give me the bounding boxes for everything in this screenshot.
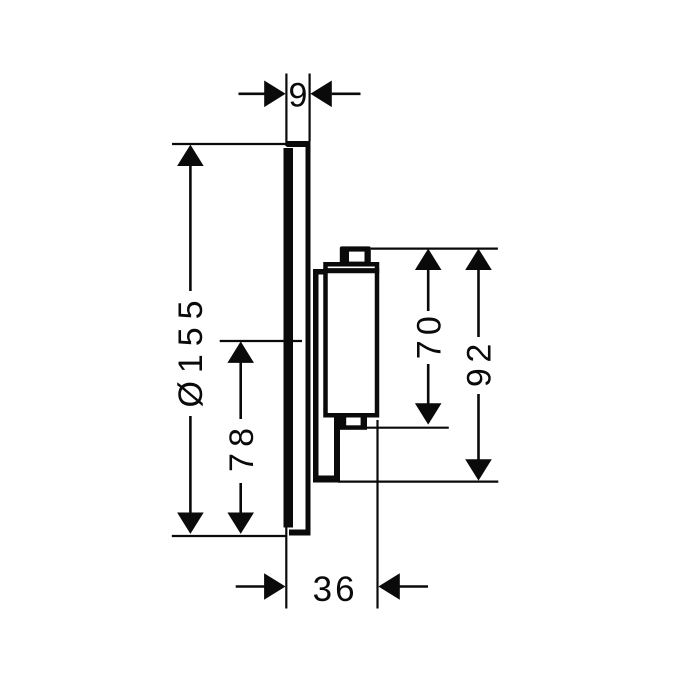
dim 92 text <box>461 344 499 388</box>
bottom stub inner white window <box>346 418 360 426</box>
dim 92 line lower segment <box>477 394 480 460</box>
dim 70 bottom arrow <box>415 403 442 424</box>
dim 36 right arrow <box>378 573 399 600</box>
sleeve pipe inner white <box>319 275 335 476</box>
dim 9 right arrow <box>310 81 331 108</box>
dim 36 left arrow <box>264 573 285 600</box>
dim 9 left extension line <box>285 74 287 147</box>
dim 92 top arrow <box>465 249 492 270</box>
dim 78 top arrow <box>227 341 254 363</box>
escutcheon plate bottom flange <box>289 530 311 536</box>
sleeve pipe outer <box>313 269 340 483</box>
dim 36 right tail line <box>400 585 429 588</box>
dim 70 text <box>410 316 448 359</box>
dim 78 bottom arrow <box>227 513 254 534</box>
svg-text:9: 9 <box>288 76 307 114</box>
dim 78 text <box>223 428 261 472</box>
dim 155 text <box>172 301 210 408</box>
dim 36 left tail line <box>236 585 265 588</box>
dim 9 left tail line <box>239 93 265 96</box>
dim 155 bottom extension line <box>172 535 287 537</box>
escutcheon plate front face bar <box>284 148 294 528</box>
dim 70 line lower segment <box>427 364 430 404</box>
dim 36 left extension line <box>285 527 287 609</box>
valve body collar line <box>323 268 379 273</box>
handle cap outer <box>340 246 371 264</box>
dim 155 top extension line <box>172 143 286 145</box>
dim 78 line upper segment <box>239 362 242 419</box>
dim 9 left arrow <box>264 81 285 108</box>
dim 36 right extension line <box>376 420 378 609</box>
dim 155 line upper segment <box>189 165 192 291</box>
dim 70 line upper segment <box>427 269 430 311</box>
dim 9 right extension line <box>309 74 311 142</box>
dim 155 top arrow <box>177 145 204 166</box>
dim 155 line lower segment <box>189 416 192 513</box>
dim 70 92 top extension line <box>371 248 498 250</box>
handle cap inner white window <box>349 252 365 262</box>
valve body outer <box>326 264 378 415</box>
dim 78 line lower segment <box>239 483 242 513</box>
dim 70 top arrow <box>415 249 442 270</box>
dim 92 bottom arrow <box>465 459 492 480</box>
dim 92 bottom extension line <box>338 481 498 483</box>
escutcheon plate top flange <box>287 141 311 147</box>
bottom stub outer <box>340 417 367 430</box>
dim 70 bottom extension line <box>366 427 449 429</box>
escutcheon plate right edge <box>306 141 311 535</box>
dim 92 line upper segment <box>477 269 480 337</box>
dim 78 center extension line <box>220 340 302 342</box>
dim 155 bottom arrow <box>177 513 204 534</box>
dim 9 right tail line <box>332 93 361 96</box>
